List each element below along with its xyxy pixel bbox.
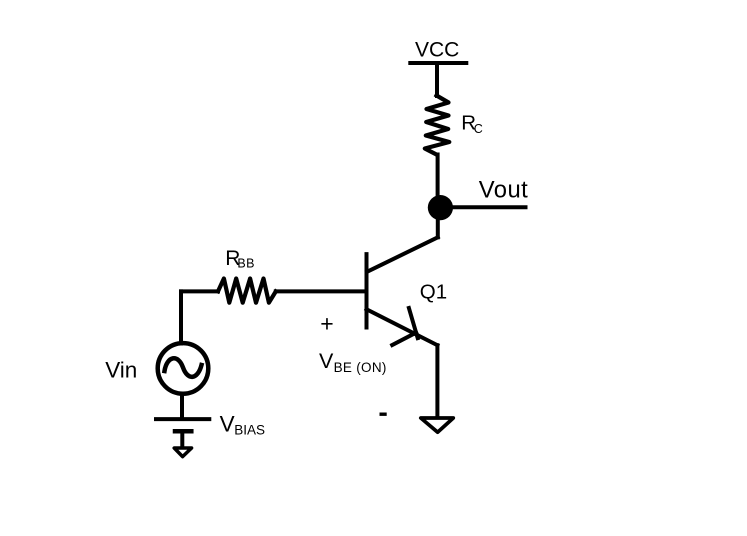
wire Vin top bbox=[179, 291, 183, 343]
resistor RC bbox=[425, 96, 450, 155]
svg-text:Vout: Vout bbox=[479, 176, 528, 203]
VCC rail bbox=[410, 61, 466, 65]
wire node to collector corner bbox=[436, 218, 440, 237]
wire emitter diagonal bbox=[367, 309, 438, 345]
source Vin circle bbox=[158, 343, 209, 394]
svg-text:BB: BB bbox=[237, 257, 254, 271]
wire collector diagonal bbox=[367, 237, 438, 271]
svg-text:C: C bbox=[474, 122, 483, 136]
emitter arrow barb 2 bbox=[392, 333, 416, 345]
svg-text:VCC: VCC bbox=[415, 39, 459, 62]
wire Vin to battery bbox=[180, 394, 184, 418]
svg-text:BE (ON): BE (ON) bbox=[334, 360, 387, 375]
emitter arrow barb 1 bbox=[409, 308, 418, 338]
svg-text:BIAS: BIAS bbox=[234, 423, 265, 438]
battery VBIAS short plate bbox=[175, 429, 191, 434]
svg-text:Vin: Vin bbox=[105, 357, 137, 382]
label minus sign bbox=[380, 413, 387, 416]
wire RBB to base bbox=[276, 289, 365, 293]
wire VCC to RC bbox=[435, 63, 439, 96]
wire battery to ground bbox=[180, 431, 184, 446]
ground (VBIAS) triangle bbox=[174, 448, 191, 457]
wire base left bbox=[181, 289, 218, 293]
battery VBIAS long plate bbox=[156, 417, 209, 421]
wire RC to node bbox=[436, 155, 440, 199]
svg-text:Q1: Q1 bbox=[420, 280, 447, 303]
wire Vout bbox=[452, 205, 526, 209]
resistor RBB bbox=[218, 279, 276, 303]
transistor Q1 base bar bbox=[365, 254, 369, 327]
ground (emitter) triangle bbox=[421, 418, 454, 432]
svg-text:+: + bbox=[320, 311, 333, 337]
wire emitter to ground bbox=[435, 345, 439, 416]
svg-text:V: V bbox=[319, 349, 334, 373]
source Vin sine bbox=[165, 358, 202, 377]
svg-text:V: V bbox=[220, 412, 235, 437]
node Vout junction bbox=[428, 195, 453, 220]
